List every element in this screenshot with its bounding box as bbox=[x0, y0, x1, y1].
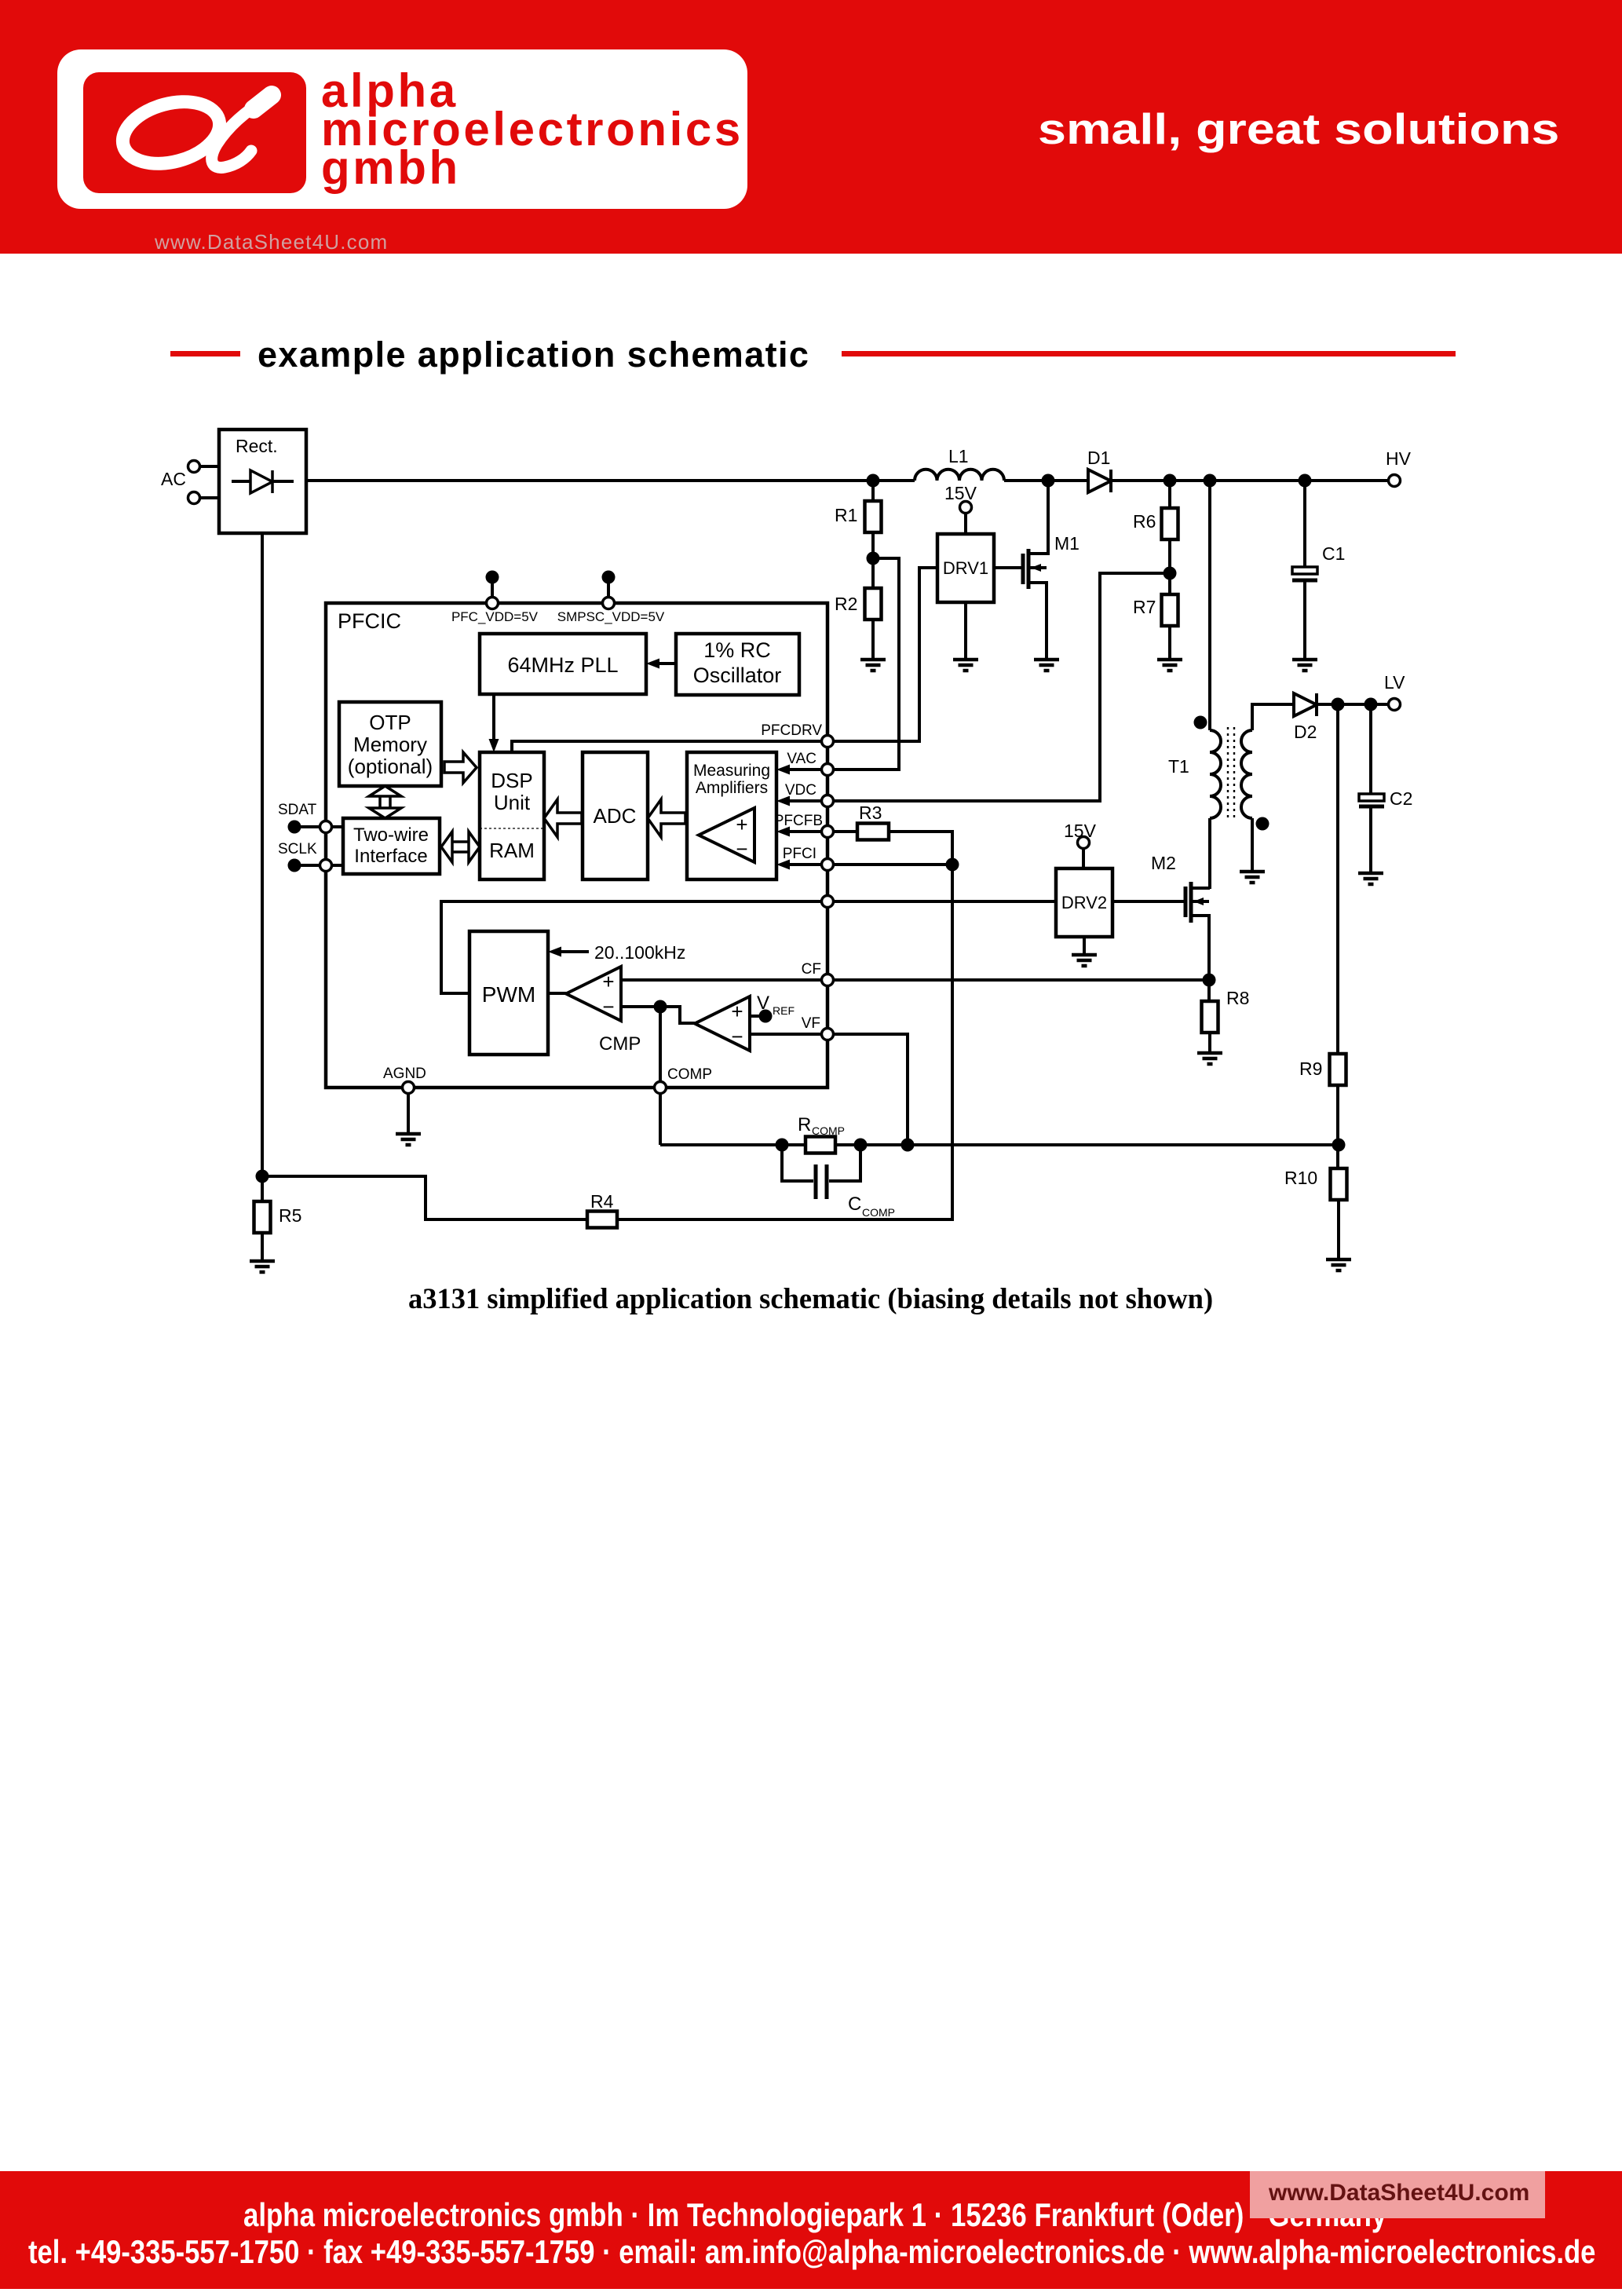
wire RCOMP right bbox=[835, 1143, 908, 1146]
wire SCLK bbox=[294, 864, 321, 867]
svg-text:VF: VF bbox=[802, 1015, 820, 1032]
ground below R7 bbox=[1157, 660, 1182, 671]
wire SCLK pin to two-wire box bbox=[331, 864, 343, 867]
transistor M2 gate bar bbox=[1184, 887, 1188, 917]
wire R6 to R7 node bbox=[1168, 539, 1171, 594]
transistor M1 gate bar bbox=[1021, 554, 1025, 584]
svg-text:Interface: Interface bbox=[354, 846, 427, 867]
wire PFCFB inside with arrow bbox=[776, 827, 823, 837]
svg-text:R7: R7 bbox=[1133, 597, 1156, 617]
arrow ADC to DSP bbox=[544, 799, 582, 837]
wire COMP to RCOMP bbox=[660, 1143, 782, 1146]
label VREF bbox=[757, 993, 795, 1017]
wire CCOMP left leg bbox=[782, 1145, 813, 1181]
svg-text:Memory: Memory bbox=[353, 733, 427, 756]
block OTP Memory box bbox=[339, 702, 441, 786]
diode inside rectifier wire bbox=[232, 480, 294, 483]
label RCOMP bbox=[798, 1114, 845, 1137]
supply 15V terminal DRV2 bbox=[1078, 837, 1090, 849]
wire DRV1 output to M1 gate bbox=[994, 566, 1021, 569]
wire PFCI pin to node bbox=[833, 863, 952, 866]
arrow MeasAmp to ADC bbox=[648, 799, 685, 837]
svg-text:R8: R8 bbox=[1226, 988, 1249, 1008]
capacitor CCOMP bbox=[816, 1164, 827, 1199]
pin SDAT bbox=[320, 821, 332, 833]
wire 15V to DRV2 bbox=[1082, 849, 1085, 868]
wire rectifier to L1 (HV rail left) bbox=[306, 479, 915, 482]
wire VF to RCOMP node bbox=[833, 1034, 908, 1145]
divider DSP/RAM dashed bbox=[480, 828, 544, 829]
transformer T1 primary bottom lead bbox=[1208, 818, 1211, 889]
wire PFCDRV pin to DRV1 input bbox=[833, 568, 937, 741]
svg-text:R1: R1 bbox=[835, 505, 857, 525]
svg-text:M2: M2 bbox=[1151, 853, 1176, 873]
pin PFCDRV bbox=[822, 736, 834, 748]
svg-text:ADC: ADC bbox=[594, 804, 637, 828]
block ADC box bbox=[583, 752, 648, 879]
logo inner red box bbox=[83, 72, 306, 193]
block DSP Unit box bbox=[480, 752, 544, 879]
wire CMP minus to error amp bbox=[621, 1007, 695, 1023]
node junction T1 primary top bbox=[1204, 474, 1217, 488]
node junction R1 top bbox=[867, 474, 880, 488]
pin COMP bbox=[655, 1082, 667, 1094]
wire DRV2 output to M2 gate bbox=[1112, 900, 1184, 903]
ground below DRV2 bbox=[1072, 955, 1097, 966]
svg-text:+: + bbox=[736, 813, 747, 836]
wire oscillator to PLL with arrow bbox=[646, 659, 676, 669]
resistor R2 bbox=[865, 588, 882, 620]
wire PFC_VDD bbox=[491, 577, 494, 598]
title red line left bbox=[170, 351, 240, 356]
node junction R1-R2 bbox=[867, 552, 880, 565]
block Two-wire Interface box bbox=[343, 818, 440, 874]
svg-text:M1: M1 bbox=[1054, 533, 1080, 554]
transformer T1 secondary top lead bbox=[1252, 704, 1294, 730]
node junction M1 drain bbox=[1042, 474, 1055, 488]
block 1% RC Oscillator box bbox=[676, 634, 799, 695]
wire PFCFB pin to R3 bbox=[833, 830, 857, 833]
transistor M1 drain lead bbox=[1029, 481, 1048, 554]
svg-text:+: + bbox=[731, 1000, 743, 1023]
transistor M2 channel bar bbox=[1189, 882, 1193, 923]
tagline bbox=[1038, 108, 1559, 151]
pin PFC_VDD circle bbox=[487, 598, 499, 609]
wire R9 to R10 node bbox=[1336, 1085, 1339, 1168]
svg-text:Rect.: Rect. bbox=[236, 436, 278, 456]
wire C1 to ground bbox=[1303, 582, 1306, 660]
wire R5 to ground bbox=[261, 1233, 264, 1261]
pin PFCI bbox=[822, 859, 834, 871]
svg-text:64MHz PLL: 64MHz PLL bbox=[507, 653, 618, 677]
caption bbox=[408, 1281, 1213, 1315]
svg-text:PFC_VDD=5V: PFC_VDD=5V bbox=[451, 609, 539, 624]
node junction C2 top bbox=[1364, 698, 1378, 711]
resistor R1 bbox=[865, 501, 882, 532]
svg-text:PWM: PWM bbox=[482, 982, 535, 1007]
wire R2 to ground bbox=[871, 620, 875, 660]
wire D2 to LV terminal bbox=[1317, 703, 1388, 706]
ground below R5 bbox=[250, 1261, 275, 1272]
svg-text:PFCDRV: PFCDRV bbox=[761, 722, 822, 739]
ground below M1 bbox=[1034, 660, 1059, 671]
ground below R2 bbox=[860, 660, 886, 671]
svg-text:DRV2: DRV2 bbox=[1061, 893, 1107, 912]
footer watermark box bbox=[1250, 2171, 1545, 2218]
block 64MHz PLL box bbox=[480, 634, 646, 694]
transformer T1 primary winding bbox=[1210, 730, 1221, 818]
svg-text:T1: T1 bbox=[1168, 756, 1189, 777]
ic PFCIC box bbox=[326, 603, 827, 1088]
wire R4 to PFCI node bbox=[617, 865, 952, 1219]
ground below R10 bbox=[1326, 1260, 1351, 1270]
node AC terminal upper bbox=[188, 461, 200, 473]
supply 15V terminal DRV1 bbox=[960, 502, 972, 514]
wire L1 to HV terminal (rail right) bbox=[1004, 479, 1394, 482]
svg-text:COMP: COMP bbox=[862, 1206, 895, 1219]
svg-text:Measuring: Measuring bbox=[693, 762, 770, 780]
title text bbox=[258, 335, 809, 375]
svg-text:1% RC: 1% RC bbox=[703, 638, 771, 662]
driver DRV2 box bbox=[1056, 868, 1112, 937]
footer line 1 bbox=[243, 2199, 1386, 2232]
svg-text:VDC: VDC bbox=[785, 782, 816, 799]
node junction RCOMP right bbox=[854, 1139, 868, 1152]
svg-text:L1: L1 bbox=[948, 446, 969, 466]
svg-text:R3: R3 bbox=[859, 803, 882, 823]
wire COMP vertical bbox=[659, 1007, 662, 1145]
wire DRV1 to ground bbox=[964, 602, 967, 660]
capacitor C1 bbox=[1292, 567, 1317, 580]
svg-text:R9: R9 bbox=[1299, 1058, 1322, 1079]
block Measuring Amplifiers box bbox=[687, 752, 776, 879]
resistor R8 bbox=[1202, 1001, 1218, 1033]
wire 15V to DRV1 bbox=[964, 514, 967, 534]
wire R1-R2 node to VAC pin bbox=[833, 558, 899, 770]
arrow OTP to DSP bbox=[444, 752, 477, 783]
svg-text:AGND: AGND bbox=[383, 1066, 426, 1082]
wire CCOMP right leg bbox=[829, 1145, 860, 1181]
ground below DRV1 bbox=[953, 660, 978, 671]
svg-text:REF: REF bbox=[773, 1004, 795, 1017]
svg-text:C1: C1 bbox=[1322, 543, 1345, 564]
wire RCOMP left bbox=[782, 1143, 806, 1146]
opamp measuring amplifier triangle bbox=[699, 808, 754, 862]
svg-text:PFCIC: PFCIC bbox=[338, 609, 401, 633]
pin DRIVE bbox=[822, 896, 834, 908]
wire R10 to ground bbox=[1337, 1200, 1340, 1260]
svg-text:AC: AC bbox=[161, 469, 186, 489]
resistor R7 bbox=[1162, 594, 1178, 626]
wire LV node to C2 bbox=[1369, 704, 1372, 794]
wire PWM to CMP bbox=[548, 992, 566, 995]
inductor L1 bbox=[915, 470, 1004, 481]
svg-text:D2: D2 bbox=[1294, 722, 1317, 742]
wire R1 to R2 node bbox=[871, 532, 875, 588]
transistor M1 channel bar bbox=[1027, 549, 1031, 589]
resistor R6 bbox=[1162, 508, 1178, 539]
node junction RCOMP left bbox=[776, 1139, 789, 1152]
svg-text:R2: R2 bbox=[835, 594, 857, 614]
svg-text:COMP: COMP bbox=[667, 1066, 712, 1083]
resistor R10 bbox=[1331, 1168, 1347, 1200]
wire CF pin to M2 source bbox=[833, 978, 1209, 982]
svg-text:LV: LV bbox=[1384, 672, 1405, 693]
resistor R9 bbox=[1330, 1054, 1346, 1085]
node LV terminal bbox=[1389, 699, 1401, 711]
wire R6-R7 node to VDC pin bbox=[833, 573, 1170, 801]
diode inside rectifier symbol bbox=[250, 470, 272, 493]
driver DRV1 box bbox=[937, 534, 994, 602]
wire C2 to ground bbox=[1369, 808, 1372, 873]
wire SMPSC_VDD bbox=[607, 577, 610, 598]
svg-text:−: − bbox=[731, 1025, 743, 1048]
opamp error amp triangle bbox=[695, 996, 750, 1051]
wire rectifier bottom to R5 bbox=[261, 533, 264, 1201]
wire drive pin inside to PWM bbox=[441, 901, 823, 993]
wire PLL to DSP with arrow bbox=[489, 694, 499, 752]
resistor RCOMP bbox=[806, 1137, 835, 1153]
svg-text:OTP: OTP bbox=[369, 711, 411, 734]
svg-text:DRV1: DRV1 bbox=[943, 558, 988, 578]
node junction R6 top bbox=[1164, 474, 1177, 488]
wire drive pin to DRV2 input bbox=[833, 900, 1056, 903]
wire R3 to PFCI node bbox=[889, 832, 952, 865]
transformer T1 secondary winding bbox=[1241, 730, 1252, 818]
footer red band bbox=[0, 2171, 1622, 2289]
logo white rounded box bbox=[57, 49, 747, 209]
transistor M1 body arrow bbox=[1030, 564, 1047, 572]
svg-text:PFCFB: PFCFB bbox=[774, 813, 823, 829]
svg-text:Amplifiers: Amplifiers bbox=[696, 779, 768, 797]
wire rail to R1 bbox=[871, 481, 875, 501]
pin VDC bbox=[822, 795, 834, 807]
rectifier Rect. box bbox=[219, 430, 306, 533]
ground below T1 secondary bbox=[1240, 872, 1265, 883]
svg-text:Two-wire: Two-wire bbox=[353, 824, 429, 846]
wire M2 source node to R8 bbox=[1207, 980, 1211, 1001]
svg-text:R10: R10 bbox=[1284, 1168, 1317, 1188]
svg-text:RAM: RAM bbox=[489, 839, 535, 862]
opamp CMP triangle bbox=[566, 967, 621, 1021]
node junction R5 top bbox=[256, 1170, 269, 1183]
svg-text:−: − bbox=[602, 995, 614, 1018]
svg-text:DSP: DSP bbox=[491, 769, 532, 792]
pin SCLK bbox=[320, 860, 332, 872]
pin PFC_VDD dot bbox=[486, 571, 499, 584]
transistor M2 source lead bbox=[1193, 916, 1209, 980]
resistor R3 bbox=[857, 824, 889, 840]
diode D2 bbox=[1294, 693, 1317, 716]
transistor M1 source lead bbox=[1030, 583, 1047, 660]
wire AC lower to rectifier bbox=[199, 496, 219, 499]
transformer T1 primary top lead bbox=[1208, 481, 1211, 730]
svg-text:−: − bbox=[736, 837, 747, 861]
header red band bbox=[0, 0, 1622, 254]
svg-text:R5: R5 bbox=[279, 1205, 301, 1226]
wire 20..100kHz arrow to PWM bbox=[548, 947, 589, 957]
ground below AGND bbox=[396, 1134, 421, 1145]
transformer T1 primary phase dot bbox=[1194, 716, 1207, 729]
wire SDAT bbox=[294, 825, 321, 828]
svg-text:Unit: Unit bbox=[494, 791, 531, 814]
node junction CMP minus bbox=[654, 1000, 667, 1014]
pin CF bbox=[822, 974, 834, 986]
node junction R9 top bbox=[1332, 698, 1345, 711]
node junction R9-R10 bbox=[1332, 1139, 1346, 1152]
label CCOMP bbox=[848, 1194, 895, 1219]
pin VAC bbox=[822, 764, 834, 776]
svg-text:VAC: VAC bbox=[787, 751, 816, 767]
svg-text:SCLK: SCLK bbox=[278, 841, 317, 857]
wire rail to R6 bbox=[1168, 481, 1171, 508]
pin SMPSC_VDD dot bbox=[602, 571, 616, 584]
wire SDAT pin to two-wire box bbox=[331, 825, 343, 828]
wire R5 node to R4 bbox=[262, 1176, 587, 1219]
svg-text:15V: 15V bbox=[944, 483, 977, 503]
pin AGND bbox=[403, 1082, 415, 1094]
node HV terminal bbox=[1389, 475, 1401, 487]
svg-text:(optional): (optional) bbox=[348, 755, 433, 778]
wire RCOMP node to R9-R10 node bbox=[908, 1143, 1338, 1146]
transformer T1 secondary bottom lead bbox=[1251, 818, 1254, 872]
ground below R8 bbox=[1197, 1053, 1222, 1064]
logo wordmark bbox=[321, 71, 743, 187]
top watermark bbox=[155, 230, 388, 254]
node SDAT dot bbox=[288, 821, 301, 834]
svg-text:SMPSC_VDD=5V: SMPSC_VDD=5V bbox=[557, 609, 665, 624]
wire VDC inside with arrow bbox=[776, 796, 823, 806]
svg-text:HV: HV bbox=[1386, 448, 1412, 469]
block PWM box bbox=[469, 931, 548, 1055]
pin SMPSC_VDD circle bbox=[603, 598, 615, 609]
node junction PFCI-R3-R4 bbox=[946, 858, 959, 872]
svg-text:SDAT: SDAT bbox=[278, 802, 317, 818]
wire VAC inside with arrow bbox=[776, 765, 823, 775]
transistor M2 body arrow bbox=[1193, 898, 1209, 905]
node junction C1 top bbox=[1299, 474, 1312, 488]
svg-text:CMP: CMP bbox=[599, 1033, 641, 1055]
svg-text:R6: R6 bbox=[1133, 511, 1156, 532]
svg-text:C: C bbox=[848, 1194, 861, 1215]
svg-text:C2: C2 bbox=[1390, 788, 1412, 809]
svg-text:D1: D1 bbox=[1087, 448, 1110, 468]
transformer T1 core lines bbox=[1228, 727, 1234, 821]
resistor R5 bbox=[254, 1201, 271, 1233]
node VREF dot bbox=[759, 1010, 773, 1023]
wire AGND to ground bbox=[407, 1093, 410, 1134]
transistor M2 drain lead bbox=[1193, 887, 1210, 890]
wire PFCI inside with arrow bbox=[776, 860, 823, 870]
node AC terminal lower bbox=[188, 492, 200, 504]
ground below C1 bbox=[1292, 660, 1317, 671]
footer line 2 bbox=[28, 2236, 1595, 2269]
arrow OTP to Two-wire (double) bbox=[369, 786, 401, 818]
pin VF bbox=[822, 1029, 834, 1040]
resistor R4 bbox=[587, 1212, 617, 1228]
svg-text:R4: R4 bbox=[590, 1191, 614, 1212]
wire LV node to R9 bbox=[1336, 704, 1339, 1054]
wire R7 to ground bbox=[1168, 626, 1171, 660]
wire error amp minus to VF pin bbox=[750, 1033, 823, 1036]
svg-text:CF: CF bbox=[802, 961, 821, 978]
wire rail to C1 bbox=[1303, 481, 1306, 567]
node SCLK dot bbox=[288, 859, 301, 872]
alpha glyph bbox=[83, 72, 306, 193]
wire VREF to error amp plus bbox=[750, 1015, 765, 1018]
ground below C2 bbox=[1358, 873, 1383, 884]
node junction VF-RCOMP bbox=[901, 1139, 915, 1152]
wire AC upper to rectifier bbox=[199, 465, 219, 468]
pin PFCFB bbox=[822, 826, 834, 838]
capacitor C2 bbox=[1359, 794, 1384, 806]
transformer T1 secondary phase dot bbox=[1256, 817, 1269, 831]
svg-text:+: + bbox=[602, 970, 614, 993]
title red line right bbox=[842, 351, 1456, 356]
node junction R6-R7 bbox=[1164, 567, 1177, 580]
svg-text:20..100kHz: 20..100kHz bbox=[594, 942, 685, 963]
wire CMP plus to CF pin bbox=[621, 978, 823, 982]
arrow Two-wire to RAM (double) bbox=[441, 832, 480, 862]
svg-text:15V: 15V bbox=[1064, 821, 1097, 841]
wire DRV2 to ground bbox=[1083, 937, 1086, 955]
diode D1 bbox=[1088, 470, 1111, 492]
node junction M2 source - CF bbox=[1203, 974, 1216, 987]
svg-text:Oscillator: Oscillator bbox=[693, 664, 782, 687]
wire PFCDRV inside bbox=[512, 741, 823, 752]
wire R8 to ground bbox=[1208, 1033, 1211, 1053]
svg-text:PFCI: PFCI bbox=[783, 846, 816, 862]
svg-text:R: R bbox=[798, 1114, 811, 1135]
